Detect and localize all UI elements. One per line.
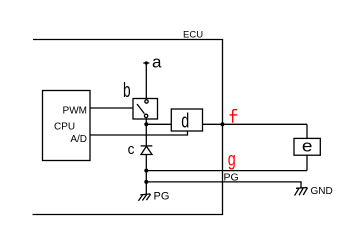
svg-text:GND: GND bbox=[311, 186, 333, 197]
svg-text:b: b bbox=[123, 80, 131, 102]
svg-text:PWM: PWM bbox=[63, 106, 87, 117]
svg-text:ECU: ECU bbox=[183, 29, 203, 40]
svg-text:CPU: CPU bbox=[54, 122, 75, 133]
svg-text:a: a bbox=[152, 52, 162, 71]
svg-text:e: e bbox=[302, 137, 313, 156]
svg-text:A/D: A/D bbox=[70, 134, 87, 145]
svg-text:PG: PG bbox=[224, 172, 239, 184]
svg-text:g: g bbox=[228, 150, 236, 171]
svg-text:d: d bbox=[181, 110, 189, 132]
svg-text:PG: PG bbox=[154, 190, 170, 202]
svg-text:c: c bbox=[128, 141, 135, 158]
